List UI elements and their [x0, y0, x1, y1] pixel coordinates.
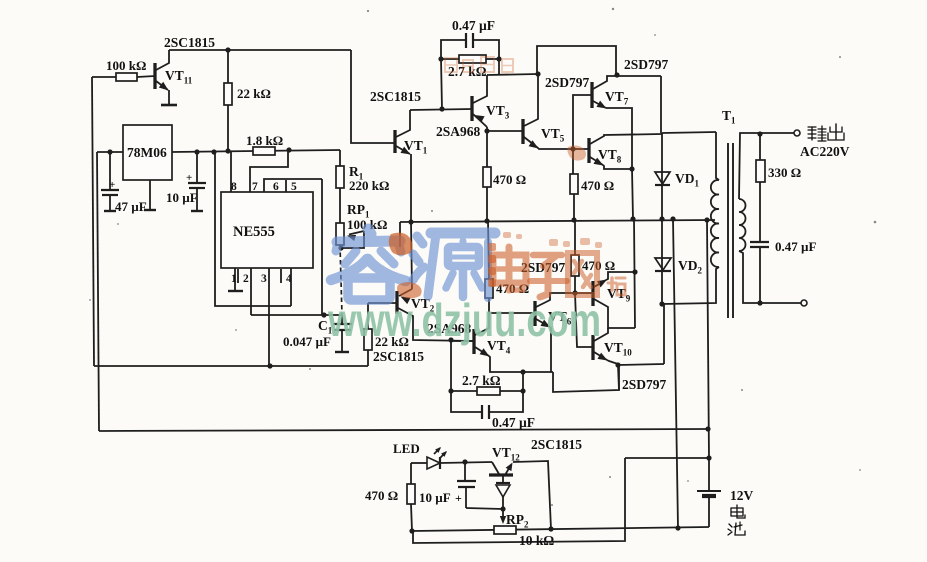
transistor VT9 [591, 281, 594, 306]
wire secondary top to output [739, 133, 794, 199]
svg-text:0.47 µF: 0.47 µF [452, 18, 495, 33]
wire emitter rail jog [553, 365, 619, 392]
wire pin2 junction rail [251, 314, 342, 316]
regulator 78M06 [123, 125, 172, 180]
svg-text:10 kΩ: 10 kΩ [519, 533, 554, 548]
node battery feed at bus [704, 217, 709, 222]
diode VD1 [661, 133, 663, 219]
svg-text:6: 6 [273, 181, 279, 193]
resistor 100k [92, 76, 116, 78]
wire VT12 emitter right [513, 461, 551, 529]
svg-text:+: + [109, 179, 115, 191]
resistor 470 no2 [572, 149, 574, 174]
svg-text:470 Ω: 470 Ω [581, 178, 614, 193]
svg-text:5: 5 [291, 181, 297, 193]
node 2.7k left lower [448, 388, 453, 393]
svg-text:1: 1 [231, 273, 237, 285]
node 47uF junction [107, 149, 112, 154]
wire 78M06 output rail [172, 150, 340, 152]
watermark orange dash column [488, 243, 496, 251]
watermark char dian orange [493, 247, 526, 290]
svg-text:220 kΩ: 220 kΩ [349, 178, 389, 193]
resistor 470 LED [410, 463, 412, 484]
svg-text:LED: LED [393, 441, 420, 456]
node VT3-VT5 collector junction [535, 71, 540, 76]
svg-text:2.7 kΩ: 2.7 kΩ [462, 373, 501, 388]
wire VD1 top to primary top [662, 132, 716, 133]
svg-text:2: 2 [243, 273, 249, 285]
node battery positive at rail [705, 426, 710, 431]
wire branch down to 2.7k [450, 340, 452, 391]
wire VT10 emitter down jog [618, 365, 619, 390]
label battery chinese chi [728, 522, 745, 535]
svg-text:+: + [186, 172, 192, 184]
node VT8 emitter VT7 emitter junction [629, 166, 634, 171]
capacitor 47uF [109, 152, 111, 190]
transistor VT1 [393, 130, 396, 153]
wire emitters to mid bus [632, 169, 633, 219]
svg-text:3: 3 [261, 273, 267, 285]
ground of VT11 [161, 104, 177, 107]
capacitor 10uF [196, 152, 198, 183]
capacitor C1 0.047uF [341, 315, 343, 324]
svg-text:10 µF: 10 µF [166, 190, 198, 205]
resistor R1 220k [339, 150, 341, 166]
pin 2 stub [250, 268, 252, 315]
capacitor 10uF LED [464, 462, 466, 481]
node VT12 emitter bottom [548, 526, 553, 531]
pin 4 stub [290, 268, 292, 306]
svg-text:470 Ω: 470 Ω [365, 488, 398, 503]
wire middle bus center tap [400, 220, 715, 222]
node 470 no2 no3 at bus [571, 217, 576, 222]
node 10uF LED junction [462, 459, 467, 464]
wire oscillator feedback bottom [94, 365, 368, 367]
svg-text:NE555: NE555 [233, 224, 275, 240]
capacitor 0.47uF output [750, 241, 769, 243]
node 2.7k right [496, 56, 501, 61]
pins 6 and 5 bracket [264, 179, 322, 192]
wire RP1 bottom dashed [340, 245, 342, 315]
node zener 10uF junction [500, 506, 505, 511]
node emitter rail junction [520, 369, 525, 374]
svg-text:1.8 kΩ: 1.8 kΩ [246, 133, 283, 148]
svg-text:2SD797: 2SD797 [545, 75, 590, 90]
node VT1 emitter at bus [408, 219, 413, 224]
resistor 22k upper [227, 50, 229, 83]
wire VT7 collector down to VD1 [660, 76, 662, 133]
svg-text:2SD797: 2SD797 [622, 377, 667, 392]
node VT5 emitter VT7 base junction [570, 146, 575, 151]
diode VD2 [661, 219, 663, 304]
node top rail / 22k junction [225, 47, 230, 52]
transformer T1 core [727, 143, 729, 318]
wire VT10 emitter up to primary bottom [618, 364, 664, 365]
wire top rail corner to VT1 base [351, 50, 395, 143]
svg-text:22 kΩ: 22 kΩ [237, 86, 271, 101]
wire 78M06 input [97, 151, 123, 153]
wire VT3 emitter to VT5 base [487, 130, 523, 132]
wire LED to VT12 [440, 462, 492, 463]
svg-text:470 Ω: 470 Ω [493, 172, 526, 187]
node output snubber bottom [757, 300, 762, 305]
potentiometer RP1 100k [336, 223, 344, 245]
wire over to VT7 collector [537, 46, 616, 75]
wire branch down left [413, 458, 625, 543]
pin 1 stub and ground [234, 268, 236, 291]
node VT1 collector wire [439, 106, 444, 111]
transistor VT8 [587, 138, 590, 163]
transistor VT10 [591, 335, 594, 360]
node VD2 bottom [659, 301, 664, 306]
node VT7 collector junction [614, 72, 619, 77]
svg-text:2SC1815: 2SC1815 [164, 35, 215, 50]
node VT6 collector rail [572, 290, 577, 295]
ground pin of 78M06 [149, 180, 151, 210]
transistor VT3 [470, 96, 473, 121]
node VT10 emitter junction [615, 362, 620, 367]
node 470 no1 at bus [484, 218, 489, 223]
node VT3 emitter to VT5 base [484, 128, 489, 133]
wire VT10 emitter to primary bottom wire [663, 303, 665, 364]
svg-text:78M06: 78M06 [127, 145, 167, 160]
node emitters at bus [630, 216, 635, 221]
resistor 330 [759, 134, 761, 160]
node 2.7k right lower [520, 388, 525, 393]
wire top rail [169, 49, 351, 51]
watermark char rong blue [331, 229, 406, 300]
node VT2 collector branch [448, 337, 453, 342]
IC NE555 [221, 192, 313, 268]
watermark char wang orange [568, 253, 597, 295]
node 10uF junction [194, 149, 199, 154]
svg-text:0.47 µF: 0.47 µF [492, 415, 535, 430]
wire pin4 to rail [215, 152, 291, 306]
wire left rail A down from 100k [92, 77, 94, 366]
wire arrow into RP2 [502, 509, 504, 518]
svg-text:2SD797: 2SD797 [624, 57, 669, 72]
node long rail at bottom wire [675, 525, 680, 530]
scan speckles [612, 8, 614, 10]
pin divider 3-4 [280, 269, 282, 283]
svg-text:12V: 12V [730, 488, 754, 503]
transistor VT5 [521, 119, 524, 144]
node pin3 junction [267, 363, 272, 368]
label shuchu chinese output [808, 124, 844, 141]
transistor VT6 [533, 301, 536, 326]
transistor VT12 [492, 462, 499, 474]
watermark orange blob mid [567, 145, 586, 160]
label 12V battery chinese dian [731, 505, 745, 518]
node long rail at bus [670, 216, 675, 221]
resistor 2.7k top [441, 58, 459, 60]
wire 2.7k right up to emitter rail [522, 372, 524, 391]
resistor 470 no4 [485, 279, 493, 298]
battery 12V [708, 458, 710, 491]
wire VT3 collector rail [487, 74, 538, 75]
node 330 ohm junction [757, 131, 762, 136]
wire battery positive up to center tap bus [707, 221, 709, 458]
node 2.7k left [438, 56, 443, 61]
svg-text:10 µF: 10 µF [419, 490, 451, 505]
resistor 1.8k [253, 147, 275, 155]
wire left rail B down from 78M06 input [97, 152, 99, 431]
wire bottom negative rail [412, 527, 709, 531]
watermark orange small row top [445, 58, 457, 72]
wire VT7 base down [573, 95, 592, 149]
transistor VT7 [590, 82, 593, 108]
resistor 470 no1 [483, 167, 491, 187]
svg-text:2SA968: 2SA968 [436, 124, 481, 139]
capacitor 0.47uF top [441, 40, 466, 109]
svg-text:AC220V: AC220V [800, 144, 850, 159]
transformer T1 primary winding [711, 180, 719, 267]
watermark orange flecks [549, 239, 558, 246]
wire long rail bus to bottom [673, 219, 678, 528]
node battery positive branch [706, 455, 711, 460]
wire bus left stub down [399, 222, 401, 247]
wire battery positive long rail [99, 429, 708, 431]
resistor 22k VT2 base [367, 303, 369, 329]
transistor VT11 [153, 63, 156, 89]
resistor 470 no3 [574, 220, 576, 255]
wire secondary bottom to output [739, 251, 801, 303]
svg-text:0.047 µF: 0.047 µF [283, 334, 331, 349]
wire primary bottom [662, 267, 719, 304]
resistor 2.7k lower [451, 390, 477, 392]
node wireA junction [211, 149, 216, 154]
svg-text:7: 7 [252, 181, 258, 193]
capacitor 0.47uF lower [451, 391, 482, 412]
watermark char zi orange [530, 255, 567, 297]
wire bus down through VT9 emitter to VT10 collector [634, 219, 635, 328]
wire battery positive branch [625, 457, 709, 459]
pin 7 wire [250, 150, 288, 192]
node VT9 emitter junction [632, 269, 637, 274]
node LED branch bottom [409, 528, 414, 533]
node pin7 junction [286, 147, 291, 152]
watermark char yuan blue [413, 233, 495, 298]
pin 8 stub [230, 151, 232, 192]
wire VT9 base to VT10 base [575, 293, 593, 347]
pin 3 stub [268, 268, 270, 366]
node VD rail at bus [659, 216, 664, 221]
svg-text:+: + [455, 491, 462, 505]
node bracket to pin2 wire [321, 312, 326, 317]
svg-text:2SC1815: 2SC1815 [370, 89, 421, 104]
zener diode VT12 base [502, 475, 504, 483]
wire VT4 collector to VT6 base [489, 312, 535, 314]
svg-text:2SC1815: 2SC1815 [531, 437, 582, 452]
transistor VT2 [395, 291, 398, 314]
svg-text:www.dzjuu.com: www.dzjuu.com [327, 294, 601, 346]
transformer T1 secondary winding [739, 199, 746, 251]
svg-text:100 kΩ: 100 kΩ [106, 58, 146, 73]
pin divider 1-2 [237, 269, 239, 283]
transistor VT4 [472, 329, 475, 354]
svg-text:47 µF: 47 µF [115, 199, 147, 214]
node RP1 wiper [338, 245, 343, 250]
LED diode [411, 462, 427, 464]
output terminal bottom [801, 300, 807, 306]
watermark orange patches over rong [389, 233, 413, 256]
svg-text:330 Ω: 330 Ω [768, 165, 801, 180]
svg-text:8: 8 [231, 181, 237, 193]
svg-text:0.47 µF: 0.47 µF [775, 239, 816, 254]
potentiometer RP2 [494, 526, 516, 534]
node 22k bottom pin8 junction [225, 148, 230, 153]
watermark orange small char zhan [608, 278, 625, 295]
output terminal top [794, 130, 800, 136]
svg-text:2SC1815: 2SC1815 [373, 349, 424, 364]
